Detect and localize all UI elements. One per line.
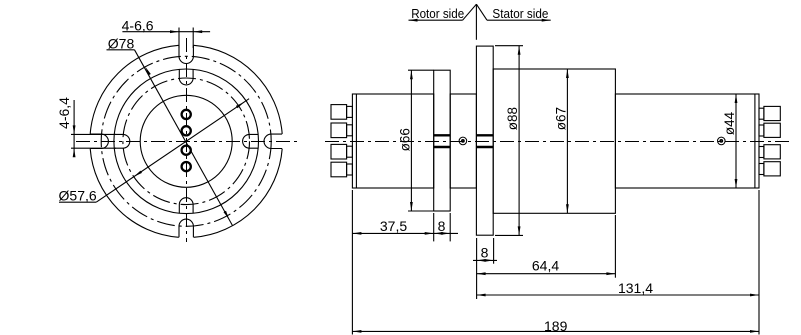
37,5 arrow left <box>352 232 361 235</box>
front view outer circle (flange OD, interrupted at slots) <box>194 149 283 238</box>
svg-text:37,5: 37,5 <box>380 218 407 234</box>
4-6.6 arrow left <box>170 30 179 33</box>
ø67 arrow bottom <box>566 204 569 213</box>
callout peak line left <box>463 4 477 20</box>
center mark left <box>459 137 467 145</box>
Ø78 arrow lower <box>224 211 230 220</box>
front view body circle ø67 <box>114 69 259 214</box>
ext line flange right <box>493 238 495 264</box>
small hole 3 <box>182 146 191 155</box>
ø66 arrow top <box>410 70 413 79</box>
4-6.6 extension line right <box>192 28 194 49</box>
svg-text:ø44: ø44 <box>722 111 737 135</box>
left pin 1 stub <box>347 106 353 117</box>
rotor end cap line <box>355 94 357 188</box>
8 flange arrow right <box>485 259 494 262</box>
stator flange ø88 <box>476 46 493 235</box>
svg-text:131,4: 131,4 <box>618 280 653 296</box>
disc contact bar lower <box>434 146 451 148</box>
8 disc arrow left <box>434 232 443 235</box>
stator body ø67 <box>493 69 615 213</box>
top inner slot (6.4) <box>179 69 193 85</box>
callout vertical line <box>475 4 477 40</box>
stator end cap line <box>754 94 756 188</box>
189 arrow left <box>352 330 361 333</box>
front view bolt circle Ø78 (dash-dot) <box>101 56 271 226</box>
Ø78 arrow upper <box>145 67 151 76</box>
4-6.4 arrow bottom <box>73 148 76 157</box>
left inner slot (6.4) <box>114 134 130 148</box>
ø66 arrow bottom <box>410 202 413 211</box>
8 disc dimension line <box>434 232 458 234</box>
front view inner circle ø44 <box>140 95 232 187</box>
left pin 3 stub <box>347 146 353 157</box>
svg-text:ø88: ø88 <box>505 107 520 130</box>
189 arrow right <box>750 330 759 333</box>
stator rear ø44 <box>615 94 759 188</box>
right pin 1 stub <box>759 108 764 119</box>
svg-text:4-6,4: 4-6,4 <box>56 97 72 129</box>
ø88 extension bottom <box>495 234 523 236</box>
front view vertical centerline <box>186 38 188 242</box>
left pin 4 body <box>331 162 347 177</box>
center mark right <box>718 137 726 145</box>
rotor body outline <box>352 94 433 188</box>
front view bolt circle Ø57.6 (dash-dot) <box>123 78 250 205</box>
4-6.6 arrow right <box>193 30 202 33</box>
ø88 extension top <box>495 45 523 47</box>
right pin 2 stub <box>759 125 764 136</box>
64,4 arrow left <box>477 272 486 275</box>
ø44 dimension line <box>735 94 737 188</box>
Ø57.6 label underline <box>59 201 96 203</box>
37,5 dimension line <box>352 232 433 234</box>
131,4 dimension line <box>477 294 759 296</box>
8 flange dimension line <box>473 259 497 261</box>
stator side arrow <box>542 19 551 22</box>
Ø78 dimension line <box>135 50 233 226</box>
right pin 4 stub <box>759 164 764 175</box>
stator side arrow line <box>487 19 551 21</box>
4-6.4 arrow top <box>73 125 76 134</box>
right outer slot (6.6) <box>264 134 282 148</box>
svg-text:ø66: ø66 <box>398 128 413 151</box>
left pin 4 stub <box>347 164 353 175</box>
svg-text:Ø78: Ø78 <box>108 36 135 52</box>
right pin 4 body <box>764 162 780 176</box>
left pin 3 body <box>331 144 347 159</box>
ø88 arrow bottom <box>518 226 521 235</box>
ext line left body <box>351 190 353 335</box>
right pin 3 body <box>764 145 780 159</box>
flange contact bar upper <box>476 134 493 136</box>
svg-text:Rotor side: Rotor side <box>411 6 464 21</box>
right pin 2 body <box>764 123 780 137</box>
131,4 arrow left <box>477 294 486 297</box>
left outer slot (6.6) <box>90 134 108 148</box>
4-6.4 extension line bottom <box>71 147 116 149</box>
svg-text:Stator side: Stator side <box>492 6 548 21</box>
right pin 3 stub <box>759 147 764 158</box>
ext line disc left <box>433 213 435 241</box>
ø67 dimension line <box>566 69 568 213</box>
left pin 2 stub <box>347 125 353 136</box>
131,4 arrow right <box>750 294 759 297</box>
ø44 arrow bottom <box>735 179 738 188</box>
4-6.6 dimension line <box>122 31 210 33</box>
8 flange arrow left <box>477 259 486 262</box>
37,5 arrow right <box>425 232 434 235</box>
Ø57.6 arrow lower-left <box>134 171 142 177</box>
ø88 dimension line <box>518 46 520 236</box>
Ø78 label underline <box>107 49 135 51</box>
front view horizontal centerline <box>76 141 298 143</box>
small hole 1 <box>182 110 191 119</box>
ø44 arrow top <box>735 94 738 103</box>
ø66 extension top <box>408 69 434 71</box>
ø66 extension bottom <box>408 210 434 212</box>
4-6.4 extension line top <box>71 133 116 135</box>
right inner slot (6.4) <box>243 134 259 148</box>
svg-text:4-6,6: 4-6,6 <box>122 17 154 33</box>
64,4 arrow right <box>606 272 615 275</box>
ø67 arrow top <box>566 69 569 78</box>
ext line right body <box>758 190 760 335</box>
flange contact bar lower <box>476 146 493 148</box>
rotor disc ø66 <box>434 70 451 211</box>
ext line stator right <box>614 215 616 278</box>
ø88 arrow top <box>518 46 521 55</box>
ext line flange left <box>476 238 478 299</box>
svg-text:ø67: ø67 <box>553 107 568 130</box>
Ø57.6 arrow upper-right <box>236 102 244 108</box>
disc contact bar upper <box>434 134 451 136</box>
rotor middle section <box>450 94 476 188</box>
bottom inner slot (6.4) <box>179 198 193 214</box>
svg-text:Ø57,6: Ø57,6 <box>59 187 97 203</box>
8 disc arrow right <box>441 232 450 235</box>
top outer slot (6.6) <box>179 45 193 63</box>
svg-text:64,4: 64,4 <box>532 258 559 274</box>
Ø57.6 dimension line <box>96 99 249 203</box>
rotor side arrow line <box>409 19 463 21</box>
bottom outer slot (6.6) <box>179 219 193 237</box>
left pin 1 body <box>331 105 347 120</box>
svg-text:189: 189 <box>544 318 568 334</box>
small hole 2 <box>182 126 191 135</box>
small hole 4 <box>182 162 191 171</box>
ø66 dimension line <box>410 70 412 211</box>
left pin 2 body <box>331 123 347 138</box>
callout peak line right <box>476 4 487 20</box>
4-6.6 extension line left <box>178 28 180 49</box>
right pin 1 body <box>764 106 780 120</box>
rotor side arrow <box>409 19 418 22</box>
side view centerline <box>325 141 790 143</box>
189 dimension line <box>352 330 759 332</box>
ext line disc right <box>449 213 451 241</box>
svg-text:8: 8 <box>481 244 489 260</box>
4-6.4 dimension line <box>73 100 75 155</box>
svg-text:8: 8 <box>438 218 446 234</box>
64,4 dimension line <box>477 273 616 275</box>
